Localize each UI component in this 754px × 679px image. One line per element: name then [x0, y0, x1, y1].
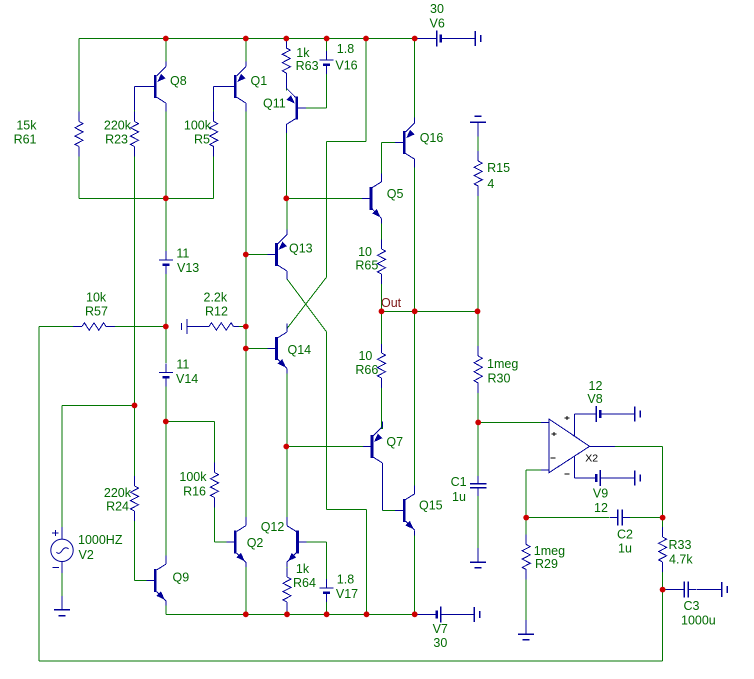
svg-text:10k: 10k	[86, 290, 107, 304]
svg-text:Q13: Q13	[289, 241, 313, 255]
svg-text:Q9: Q9	[173, 570, 190, 584]
svg-text:V9: V9	[593, 486, 608, 500]
svg-text:100k: 100k	[179, 470, 207, 484]
svg-text:Q16: Q16	[420, 131, 444, 145]
svg-text:R29: R29	[535, 557, 558, 571]
svg-text:R12: R12	[205, 304, 228, 318]
svg-text:Q7: Q7	[386, 435, 403, 449]
svg-text:30: 30	[430, 2, 444, 16]
svg-text:R24: R24	[106, 499, 129, 513]
svg-text:4.7k: 4.7k	[669, 552, 693, 566]
svg-text:Out: Out	[381, 296, 402, 310]
svg-text:1k: 1k	[296, 46, 310, 60]
svg-text:1u: 1u	[618, 541, 632, 555]
svg-text:C1: C1	[451, 475, 467, 489]
svg-text:12: 12	[594, 501, 608, 515]
svg-text:4: 4	[487, 177, 494, 191]
svg-text:V16: V16	[335, 58, 357, 72]
svg-text:R30: R30	[488, 371, 511, 385]
svg-text:R61: R61	[14, 132, 37, 146]
svg-text:1meg: 1meg	[534, 544, 565, 558]
svg-text:R65: R65	[355, 258, 378, 272]
svg-text:R16: R16	[183, 484, 206, 498]
svg-text:12: 12	[589, 379, 603, 393]
svg-text:2.2k: 2.2k	[204, 290, 228, 304]
svg-text:Q14: Q14	[288, 343, 312, 357]
svg-text:R66: R66	[355, 363, 378, 377]
svg-text:C3: C3	[684, 599, 700, 613]
svg-text:Q5: Q5	[387, 187, 404, 201]
svg-text:11: 11	[176, 357, 189, 371]
svg-text:Q1: Q1	[251, 74, 268, 88]
svg-text:Q8: Q8	[170, 74, 187, 88]
svg-text:11: 11	[176, 246, 189, 260]
svg-text:1000HZ: 1000HZ	[78, 533, 123, 547]
svg-text:R23: R23	[105, 132, 128, 146]
svg-text:C2: C2	[617, 527, 633, 541]
svg-text:10: 10	[358, 349, 372, 363]
svg-text:220k: 220k	[104, 118, 132, 132]
svg-text:R15: R15	[487, 161, 510, 175]
svg-text:1k: 1k	[296, 562, 310, 576]
svg-text:100k: 100k	[184, 118, 212, 132]
svg-text:V14: V14	[176, 372, 198, 386]
svg-text:R63: R63	[296, 59, 319, 73]
svg-text:Q2: Q2	[247, 536, 264, 550]
svg-text:1.8: 1.8	[337, 572, 354, 586]
svg-text:R5: R5	[194, 132, 210, 146]
svg-text:1meg: 1meg	[487, 357, 518, 371]
svg-text:R33: R33	[669, 538, 692, 552]
svg-text:V6: V6	[430, 16, 445, 30]
svg-text:R57: R57	[85, 304, 108, 318]
svg-text:10: 10	[358, 245, 372, 259]
svg-text:V8: V8	[587, 392, 602, 406]
svg-text:Q11: Q11	[263, 96, 286, 110]
svg-text:V2: V2	[79, 548, 94, 562]
svg-text:Q12: Q12	[261, 520, 285, 534]
svg-text:R64: R64	[293, 576, 316, 590]
svg-text:V13: V13	[177, 261, 199, 275]
svg-text:220k: 220k	[104, 486, 132, 500]
svg-text:V7: V7	[433, 622, 448, 636]
svg-text:1.8: 1.8	[337, 42, 354, 56]
svg-text:X2: X2	[585, 453, 598, 465]
svg-text:1000u: 1000u	[681, 613, 716, 627]
svg-text:30: 30	[433, 636, 447, 650]
svg-text:15k: 15k	[16, 118, 37, 132]
svg-text:1u: 1u	[452, 490, 466, 504]
svg-text:Q15: Q15	[419, 498, 443, 512]
svg-text:V17: V17	[336, 587, 358, 601]
